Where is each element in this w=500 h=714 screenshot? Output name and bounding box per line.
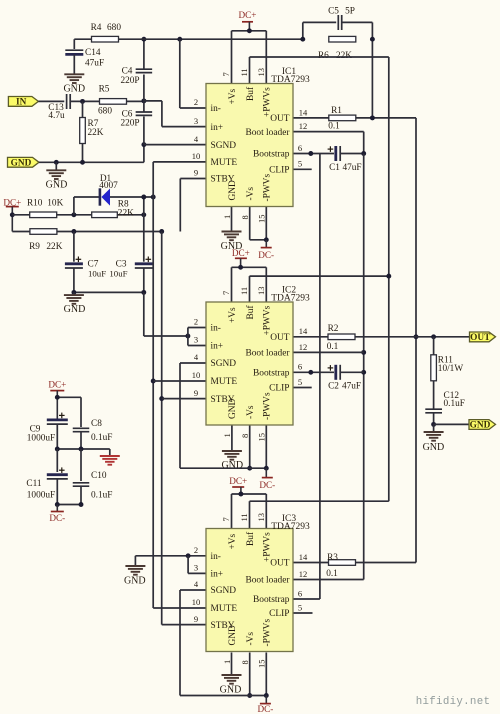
svg-text:+Vs: +Vs [228,88,238,104]
svg-text:GND: GND [228,398,238,419]
svg-text:DC+: DC+ [229,476,247,486]
svg-text:8: 8 [240,215,250,219]
svg-text:TDA7293: TDA7293 [271,294,310,304]
svg-text:-PWVs: -PWVs [263,619,273,647]
svg-text:9: 9 [194,614,198,624]
svg-text:Boot loader: Boot loader [245,128,290,138]
svg-text:7: 7 [221,72,231,76]
svg-text:TDA7293: TDA7293 [271,522,310,532]
svg-text:1: 1 [222,433,232,437]
svg-text:8: 8 [240,434,250,438]
svg-text:14: 14 [299,552,308,562]
svg-text:-Vs: -Vs [246,187,256,201]
svg-text:Bootstrap: Bootstrap [253,595,290,605]
svg-text:4.7u: 4.7u [48,111,65,121]
svg-text:220P: 220P [120,76,139,86]
svg-text:2: 2 [194,545,198,555]
svg-text:680: 680 [107,23,121,33]
svg-text:C10: C10 [91,471,107,481]
svg-text:R1: R1 [331,106,342,116]
svg-text:+Vs: +Vs [228,533,238,549]
svg-text:14: 14 [299,326,308,336]
svg-text:in+: in+ [211,123,224,133]
svg-text:DC-: DC- [49,513,65,523]
svg-text:R4: R4 [91,23,102,33]
svg-text:C2: C2 [328,381,339,391]
svg-text:47uF: 47uF [342,163,361,173]
svg-text:hifidiy.net: hifidiy.net [416,696,491,708]
svg-text:GND: GND [470,421,491,431]
svg-text:11: 11 [239,68,249,76]
svg-text:CLIP: CLIP [269,384,289,394]
svg-text:GND: GND [64,304,86,315]
svg-text:in+: in+ [211,570,224,580]
svg-text:C11: C11 [26,479,42,489]
svg-text:Buf: Buf [245,86,256,101]
svg-text:5: 5 [298,377,302,387]
svg-text:GND: GND [423,442,445,453]
svg-text:Boot loader: Boot loader [245,576,290,586]
svg-text:DC+: DC+ [232,248,250,258]
svg-text:15: 15 [257,433,267,442]
svg-text:Buf: Buf [245,305,256,320]
svg-text:10: 10 [192,151,201,161]
svg-text:1000uF: 1000uF [27,491,55,501]
svg-text:13: 13 [256,287,266,296]
svg-text:Buf: Buf [245,531,256,546]
svg-text:0.1uF: 0.1uF [444,399,465,409]
svg-text:5: 5 [298,602,302,612]
svg-text:GND: GND [228,180,238,201]
svg-text:TDA7293: TDA7293 [271,75,310,85]
svg-text:0.1uF: 0.1uF [91,433,112,443]
svg-text:MUTE: MUTE [211,158,238,168]
svg-text:1: 1 [222,215,232,219]
svg-text:SGND: SGND [211,359,237,369]
svg-text:0.1uF: 0.1uF [91,491,112,501]
svg-text:-PWVs: -PWVs [263,174,273,202]
svg-text:13: 13 [256,513,266,522]
svg-text:3: 3 [194,563,198,573]
svg-text:R6: R6 [318,51,329,61]
svg-text:10: 10 [192,597,201,607]
svg-text:0.1: 0.1 [327,342,339,352]
svg-text:6: 6 [298,143,302,153]
svg-text:13: 13 [256,68,266,77]
svg-text:MUTE: MUTE [211,377,238,387]
svg-text:680: 680 [98,107,112,117]
svg-text:-Vs: -Vs [246,405,256,419]
svg-text:1: 1 [222,660,232,664]
svg-text:3: 3 [194,116,198,126]
svg-text:220P: 220P [120,118,139,128]
svg-text:GND: GND [228,625,238,646]
svg-text:10uF: 10uF [88,269,106,279]
svg-text:10/1W: 10/1W [438,364,464,374]
svg-text:8: 8 [240,660,250,664]
svg-text:SGND: SGND [211,141,237,151]
svg-text:in-: in- [211,552,221,562]
svg-text:DC-: DC- [258,250,274,260]
svg-text:2: 2 [194,317,198,327]
svg-text:IN: IN [16,98,27,108]
svg-text:0.1: 0.1 [326,569,338,579]
svg-text:6: 6 [298,588,302,598]
svg-text:SGND: SGND [211,586,237,596]
svg-text:R2: R2 [328,324,339,334]
svg-text:3: 3 [194,335,198,345]
svg-text:12: 12 [299,569,308,579]
svg-text:9: 9 [194,168,198,178]
svg-text:R5: R5 [99,85,110,95]
svg-text:GND: GND [220,685,242,696]
svg-text:GND: GND [124,576,146,587]
svg-text:0.1: 0.1 [328,122,340,132]
svg-text:15: 15 [257,215,267,224]
svg-text:22K: 22K [88,128,104,138]
svg-text:OUT: OUT [270,114,290,124]
svg-text:2: 2 [194,97,198,107]
svg-text:GND: GND [63,84,85,95]
svg-text:DC+: DC+ [48,380,66,390]
svg-text:47uF: 47uF [342,381,361,391]
svg-text:C8: C8 [91,419,102,429]
svg-text:DC-: DC- [259,480,275,490]
svg-text:9: 9 [194,388,198,398]
svg-text:DC+: DC+ [239,10,257,20]
svg-text:-Vs: -Vs [246,632,256,646]
svg-text:22K: 22K [46,242,62,252]
svg-text:Boot loader: Boot loader [245,349,290,359]
svg-text:Bootstrap: Bootstrap [253,369,290,379]
svg-text:in-: in- [211,104,221,114]
svg-text:11: 11 [239,287,249,295]
svg-text:CLIP: CLIP [269,609,289,619]
svg-text:1000uF: 1000uF [27,434,55,444]
svg-text:+PWVs: +PWVs [263,532,273,562]
svg-text:22K: 22K [118,208,134,218]
svg-text:14: 14 [299,107,308,117]
svg-text:C14: C14 [85,48,101,58]
svg-text:C1: C1 [329,163,340,173]
svg-text:DC-: DC- [257,704,273,714]
svg-text:47uF: 47uF [85,59,104,69]
svg-text:OUT: OUT [470,333,491,343]
svg-text:in+: in+ [211,342,224,352]
svg-text:10uF: 10uF [109,269,127,279]
svg-text:in-: in- [211,324,221,334]
svg-text:5: 5 [298,159,302,169]
svg-text:22K: 22K [336,51,352,61]
svg-text:R3: R3 [327,553,338,563]
svg-text:10K: 10K [47,199,63,209]
svg-text:7: 7 [221,291,231,295]
svg-text:5P: 5P [345,7,355,17]
svg-text:10: 10 [192,370,201,380]
svg-text:GND: GND [221,460,243,471]
svg-text:11: 11 [239,513,249,521]
svg-text:+Vs: +Vs [228,307,238,323]
svg-text:12: 12 [299,342,308,352]
svg-text:OUT: OUT [270,333,290,343]
svg-text:-PWVs: -PWVs [263,392,273,420]
svg-text:12: 12 [299,121,308,131]
svg-text:GND: GND [46,180,68,191]
svg-text:GND: GND [11,159,32,169]
svg-text:+PWVs: +PWVs [263,87,273,117]
svg-text:R9: R9 [29,242,40,252]
svg-text:6: 6 [298,362,302,372]
svg-text:Bootstrap: Bootstrap [253,150,290,160]
svg-text:+PWVs: +PWVs [263,305,273,335]
svg-text:C5: C5 [328,7,339,17]
svg-text:4007: 4007 [99,181,118,191]
svg-text:R10: R10 [27,199,43,209]
svg-text:15: 15 [257,660,267,669]
svg-text:OUT: OUT [270,559,290,569]
svg-text:MUTE: MUTE [211,604,238,614]
svg-text:7: 7 [221,517,231,521]
